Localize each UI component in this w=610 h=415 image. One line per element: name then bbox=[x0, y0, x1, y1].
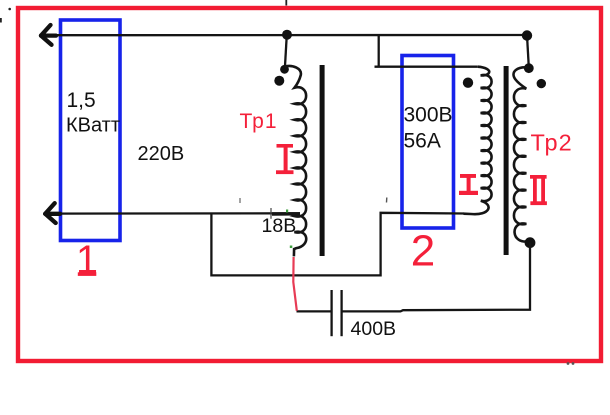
svg-text:Тр2: Тр2 bbox=[531, 130, 573, 156]
transformer Tp1 winding (220V primary with 18V tap) bbox=[285, 66, 307, 256]
wire: drop from top line to Tp1 primary bbox=[285, 35, 287, 67]
node: Tp2 secondary top terminal bbox=[524, 63, 534, 73]
wire: red tap lead from 18V tap to capacitor bbox=[293, 257, 297, 311]
wire: step from top line down to Tp2 primary bbox=[378, 35, 380, 67]
svg-text:Тр1: Тр1 bbox=[240, 110, 278, 133]
wire: lower AC line to 18V tap bbox=[46, 212, 300, 215]
wire: drop from top line to Tp2 secondary bbox=[527, 36, 529, 68]
transformer Tp2 secondary winding bbox=[514, 67, 530, 241]
node: Tp1 phasing dot bbox=[274, 76, 284, 86]
transformer Tp2 primary winding (inside/next to block 2) bbox=[464, 67, 492, 214]
wire: detour loop joining lower AC line to Tp2 primary bottom bbox=[211, 213, 464, 276]
svg-text:56А: 56А bbox=[404, 129, 441, 152]
winding mark I of Tp1 (red) bbox=[276, 144, 294, 174]
svg-text:КВатт: КВатт bbox=[66, 114, 120, 136]
capacitor C (400V) bbox=[330, 290, 332, 336]
stray photo specks bbox=[8, 8, 11, 11]
node: junction on top line at Tp1 bbox=[282, 30, 292, 40]
node: Tp2 primary phasing dot bbox=[463, 78, 473, 88]
svg-text:400В: 400В bbox=[351, 318, 397, 340]
node: Tp2 secondary bottom terminal bbox=[525, 237, 536, 248]
node: Tp1 primary top terminal bbox=[280, 65, 289, 74]
svg-text:2: 2 bbox=[411, 227, 435, 276]
winding mark I of Tp2 primary (red) bbox=[459, 174, 478, 195]
arrow left bottom bbox=[45, 203, 60, 223]
arrow left top bbox=[41, 25, 56, 45]
block 1 (blue box, load 1,5 KWatt) bbox=[61, 20, 121, 241]
svg-text:220В: 220В bbox=[138, 143, 185, 165]
node: Tp2 secondary phasing dot bbox=[537, 79, 546, 88]
core of Tp1 bbox=[320, 65, 325, 256]
svg-text:300В: 300В bbox=[404, 103, 453, 126]
svg-text:18В: 18В bbox=[262, 215, 297, 237]
wire: top AC line bbox=[52, 34, 524, 37]
svg-text:1,5: 1,5 bbox=[67, 89, 96, 112]
wire: capacitor left lead bbox=[297, 310, 331, 312]
core of Tp2 bbox=[504, 66, 509, 255]
block 2 (blue box, 300V 56A winding) bbox=[402, 56, 454, 229]
winding mark II of Tp2 secondary (red) bbox=[530, 175, 547, 205]
wire: Tp2 secondary bottom to capacitor bbox=[342, 243, 530, 312]
node: junction on top line right bbox=[522, 30, 532, 40]
